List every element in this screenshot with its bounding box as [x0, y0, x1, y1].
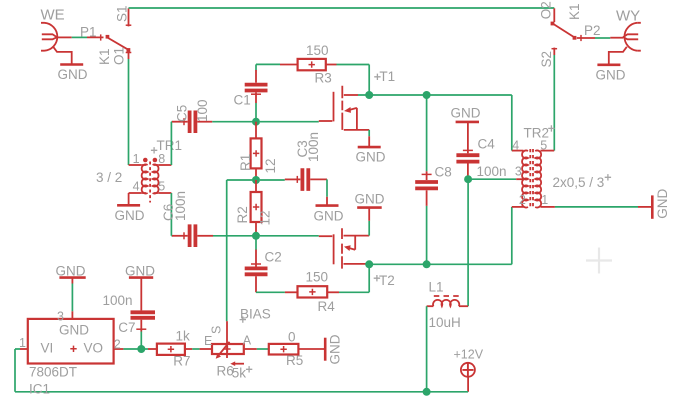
- svg-text:BIAS: BIAS: [240, 307, 271, 322]
- supply +12V: [461, 363, 475, 392]
- svg-text:5: 5: [540, 138, 547, 152]
- node R1 R2: [252, 176, 260, 184]
- svg-text:3: 3: [57, 309, 64, 323]
- inductor L1: [427, 179, 469, 392]
- IC1 pin 2: [114, 338, 124, 352]
- ground right of R5: [325, 334, 342, 364]
- capacitor C5: [172, 111, 212, 134]
- wire C2 to R4: [256, 291, 285, 293]
- svg-text:R1: R1: [238, 154, 253, 171]
- svg-text:R3: R3: [315, 71, 332, 86]
- wire TR2 pin4 riser: [511, 95, 513, 151]
- wire S2 to TR2 pin5: [553, 55, 555, 151]
- wire T2 drain net: [366, 263, 512, 265]
- node T1 drain: [365, 91, 373, 99]
- capacitor C3: [285, 168, 327, 191]
- node T2 drain: [365, 260, 373, 268]
- wire R7 to R6: [192, 348, 199, 350]
- wire TR1 pin5 to C6: [171, 193, 172, 236]
- IC1 pin 3: [57, 309, 72, 323]
- svg-text:A: A: [243, 334, 252, 348]
- label T1: [374, 69, 395, 84]
- svg-text:VI: VI: [41, 340, 54, 355]
- svg-text:5: 5: [158, 180, 165, 194]
- svg-text:GND: GND: [125, 263, 155, 278]
- node C1 gate: [252, 118, 260, 126]
- wire node to R3: [256, 63, 280, 65]
- svg-text:C4: C4: [478, 137, 496, 152]
- resistor R2: [251, 180, 262, 236]
- svg-text:5k: 5k: [232, 366, 247, 381]
- svg-text:C5: C5: [174, 105, 189, 122]
- potentiometer R6: [200, 321, 257, 366]
- svg-text:100n: 100n: [103, 293, 133, 308]
- wire drain net: [358, 94, 512, 96]
- svg-text:GND: GND: [355, 191, 385, 206]
- label BIAS: [240, 307, 271, 323]
- svg-text:R5: R5: [286, 353, 303, 368]
- wire TR2 pin2 drop: [511, 207, 513, 264]
- svg-text:100n: 100n: [477, 164, 507, 179]
- svg-text:8: 8: [158, 152, 165, 166]
- relay contact S1: [126, 8, 132, 26]
- svg-text:GND: GND: [314, 209, 344, 224]
- connector WE: [41, 23, 72, 65]
- svg-text:C8: C8: [435, 165, 452, 180]
- IC1 pin 1: [19, 336, 28, 350]
- ground under TR1 pin4: [115, 193, 145, 223]
- svg-text:VO: VO: [84, 340, 104, 355]
- wire P2 to WY: [595, 37, 610, 39]
- resistor R5: [269, 344, 325, 355]
- svg-text:4: 4: [512, 138, 519, 152]
- resistor R4: [285, 286, 339, 297]
- svg-text:C7: C7: [118, 320, 135, 335]
- svg-text:C1: C1: [234, 93, 251, 108]
- ground under WY: [596, 65, 626, 83]
- svg-text:GND: GND: [115, 208, 145, 223]
- svg-text:7806DT: 7806DT: [29, 365, 77, 380]
- svg-text:4: 4: [133, 180, 140, 194]
- svg-text:T1: T1: [379, 69, 395, 84]
- svg-text:2x0,5 / 3: 2x0,5 / 3: [553, 175, 605, 190]
- svg-text:GND: GND: [356, 150, 386, 165]
- relay contact P2: [577, 35, 595, 41]
- wire C6 to node R2: [213, 235, 256, 237]
- ground under T1: [356, 130, 386, 165]
- relay contact S2: [552, 48, 558, 55]
- svg-text:E: E: [204, 334, 212, 348]
- wire node to TR2 pin3: [472, 178, 516, 180]
- relay contact P1: [87, 34, 130, 51]
- node rail L1: [423, 388, 431, 396]
- node R2 C2: [252, 232, 260, 240]
- capacitor C8: [415, 95, 438, 264]
- svg-text:S1: S1: [115, 5, 130, 22]
- transformer TR2: [512, 149, 555, 209]
- svg-text:IC1: IC1: [29, 381, 50, 396]
- label 5k: [232, 366, 253, 381]
- resistor R1: [251, 122, 262, 180]
- svg-text:12: 12: [257, 210, 272, 225]
- ground above C4: [451, 106, 481, 154]
- wire drain to R4: [339, 264, 369, 292]
- svg-text:100n: 100n: [173, 191, 188, 221]
- wire bottom rail: [15, 349, 468, 392]
- label TR1: [151, 138, 182, 154]
- capacitor C6: [172, 224, 213, 247]
- node IC1 pin2: [137, 345, 145, 353]
- svg-text:GND: GND: [451, 106, 481, 121]
- svg-text:K1: K1: [567, 3, 582, 20]
- capacitor C7: [131, 312, 156, 349]
- resistor R7: [141, 344, 192, 355]
- relay contact O2: [551, 8, 577, 39]
- svg-text:P1: P1: [80, 25, 97, 40]
- label TR2: [524, 125, 555, 140]
- svg-text:S2: S2: [539, 51, 554, 68]
- transistor T2: [260, 228, 369, 268]
- ground under WE: [58, 65, 88, 83]
- IC1 voltage regulator 7806DT: [28, 319, 114, 364]
- svg-text:100: 100: [195, 99, 210, 122]
- node C4 TR2 pin3: [464, 175, 472, 183]
- svg-text:WE: WE: [41, 7, 65, 24]
- svg-text:P2: P2: [584, 23, 601, 38]
- wire node to C3: [260, 179, 285, 181]
- wire IC1 pin2 to node: [123, 348, 141, 350]
- wire O1 to TR1 pin1: [128, 59, 130, 165]
- svg-text:S: S: [210, 326, 224, 334]
- svg-text:GND: GND: [56, 263, 86, 278]
- svg-text:L1: L1: [429, 279, 444, 294]
- ground above IC1 pin3: [56, 263, 86, 311]
- wire WE to P1: [72, 36, 87, 38]
- svg-text:2: 2: [114, 338, 121, 352]
- svg-text:12: 12: [263, 158, 278, 173]
- svg-text:TR1: TR1: [157, 138, 183, 153]
- svg-text:3: 3: [515, 164, 522, 178]
- ground right of TR2: [638, 189, 670, 219]
- svg-text:T2: T2: [379, 273, 395, 288]
- svg-text:GND: GND: [596, 68, 626, 83]
- svg-text:R2: R2: [235, 206, 250, 223]
- wire top rail S1 to O2: [129, 7, 555, 9]
- svg-text:10uH: 10uH: [429, 315, 461, 330]
- svg-text:C2: C2: [265, 250, 282, 265]
- svg-text:1: 1: [19, 336, 26, 350]
- svg-text:2: 2: [519, 193, 526, 207]
- svg-text:GND: GND: [327, 334, 342, 364]
- svg-text:0: 0: [288, 330, 296, 345]
- svg-text:O1: O1: [111, 47, 126, 65]
- transformer TR1: [129, 158, 172, 203]
- svg-text:GND: GND: [58, 67, 88, 82]
- svg-text:+12V: +12V: [454, 347, 484, 361]
- ground under C3: [314, 179, 344, 223]
- wire wiper riser: [227, 180, 253, 321]
- svg-text:R4: R4: [318, 299, 336, 314]
- label 2x0,5 / 3: [553, 174, 612, 190]
- capacitor C4: [456, 150, 479, 179]
- ground above C7: [125, 263, 155, 310]
- label T2: [374, 273, 395, 288]
- resistor R3: [280, 59, 337, 70]
- node C8 top: [423, 91, 431, 99]
- transistor T1: [260, 86, 369, 130]
- svg-text:WY: WY: [616, 8, 640, 25]
- svg-text:GND: GND: [655, 189, 670, 219]
- svg-text:GND: GND: [59, 323, 89, 338]
- svg-text:150: 150: [306, 43, 329, 58]
- svg-text:1: 1: [133, 152, 140, 166]
- ground above T2: [355, 191, 385, 235]
- svg-text:100n: 100n: [306, 132, 321, 162]
- svg-text:3 / 2: 3 / 2: [96, 170, 122, 185]
- wire TR1 pin8 to C5: [171, 122, 172, 165]
- capacitor C1: [245, 64, 268, 121]
- node C8 bottom: [423, 260, 431, 268]
- connector WY: [609, 23, 641, 65]
- wire C5 to node C1: [212, 121, 256, 123]
- wire R3 to drain node: [337, 65, 370, 96]
- svg-text:150: 150: [306, 270, 329, 285]
- wire TR2 pin1 to ground: [555, 206, 638, 208]
- sheet marker cross: [586, 248, 612, 274]
- svg-text:1k: 1k: [176, 329, 191, 344]
- wire R6 to R5: [257, 348, 269, 350]
- capacitor C2: [245, 236, 268, 292]
- svg-text:1: 1: [541, 193, 548, 207]
- svg-text:O2: O2: [538, 1, 553, 19]
- svg-text:R7: R7: [173, 354, 190, 369]
- relay contact O1: [126, 51, 132, 59]
- svg-text:K1: K1: [97, 48, 112, 65]
